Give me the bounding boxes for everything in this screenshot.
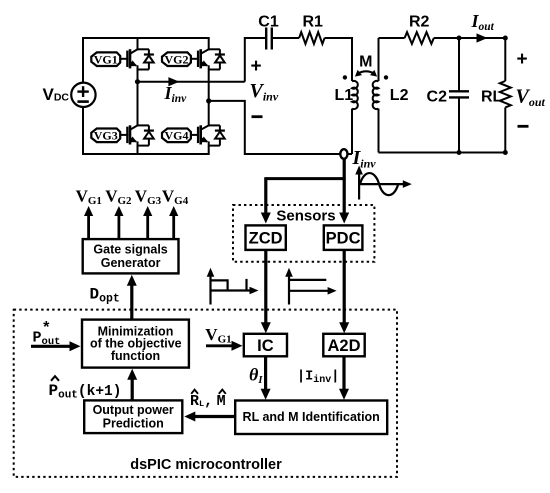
svg-text:VG2: VG2 <box>164 52 188 66</box>
svg-text:+: + <box>517 49 528 70</box>
transistor Q2 (VG2) <box>162 37 225 102</box>
svg-text:PDC: PDC <box>326 229 361 247</box>
arrow: predicted power to Minimization <box>131 375 134 400</box>
svg-text:VG1: VG1 <box>94 52 118 66</box>
arrow: IC output theta to RL and M Identification <box>264 356 267 393</box>
svg-text:RL: RL <box>481 89 503 106</box>
svg-text:RL,M: RL,M <box>190 393 226 410</box>
svg-text:A2D: A2D <box>327 337 360 355</box>
polarity dot L1 <box>343 75 347 79</box>
waveform glyph: phase delay <box>288 273 290 304</box>
arrowhead I_inv direction <box>168 77 179 86</box>
arrow: ZCD output to IC <box>264 250 267 327</box>
hat over R <box>191 390 198 394</box>
block IC <box>244 334 287 357</box>
arrow: gate signal V_G1 <box>87 212 90 239</box>
coupling curved arrow M <box>357 71 375 74</box>
node: right leg midpoint <box>206 98 211 103</box>
wire: bridge bottom rail <box>83 153 209 155</box>
dashed box: dsPIC microcontroller <box>14 310 397 477</box>
arrow: P*out into Minimization <box>31 345 74 348</box>
sine wave <box>360 173 398 195</box>
svg-text:M: M <box>359 53 372 70</box>
svg-text:Gate signals: Gate signals <box>93 242 167 256</box>
svg-text:VG4: VG4 <box>164 129 188 143</box>
waveform glyph: gate pulses <box>209 273 211 304</box>
wire: R1 to L1 top <box>325 38 353 81</box>
wire: bridge top rail <box>83 37 209 39</box>
block ZCD <box>246 225 286 250</box>
svg-text:L2: L2 <box>390 87 409 104</box>
arrow: identified params to Output power Prediction <box>191 415 235 418</box>
block PDC <box>324 225 363 250</box>
transistor Q1 (VG1) <box>91 37 154 83</box>
resistor RL (load) <box>504 38 506 81</box>
block Minimization of the objective function <box>82 320 189 368</box>
wire: bridge left rail upper <box>82 37 84 83</box>
arrow: gate signal V_G2 <box>118 212 121 239</box>
wire: secondary bottom rail <box>379 152 506 154</box>
capacitor C2 <box>458 38 460 91</box>
inductor L1 <box>352 81 358 109</box>
block RL and M Identification <box>235 401 387 435</box>
svg-text:+: + <box>251 56 262 77</box>
transistor Q4 (VG4) <box>162 100 225 155</box>
wire: R2 to RL top corner <box>434 37 506 39</box>
svg-text:dsPIC microcontroller: dsPIC microcontroller <box>130 457 282 473</box>
svg-text:R1: R1 <box>302 14 323 31</box>
resistor R1 <box>299 32 324 44</box>
resistor R2 <box>405 32 434 44</box>
svg-text:*: * <box>42 320 52 338</box>
svg-text:RL and M Identification: RL and M Identification <box>243 410 380 424</box>
svg-text:Generator: Generator <box>101 256 161 270</box>
svg-text:ZCD: ZCD <box>249 229 283 247</box>
arrow: branch down to ZCD <box>264 177 267 217</box>
wire: bridge left rail lower <box>82 107 84 155</box>
wire: C1 to R1 <box>272 37 299 39</box>
hat over M <box>219 390 226 394</box>
node dots secondary <box>457 36 462 41</box>
svg-text:C2: C2 <box>427 89 448 106</box>
arrowhead I_out <box>477 33 488 42</box>
hat over P <box>51 376 59 381</box>
label V_inv minus <box>252 115 263 118</box>
dashed box: Sensors <box>233 205 374 262</box>
wire: inverter + output (crosses right leg) <box>138 81 245 83</box>
wire: primary bottom rail <box>245 153 341 155</box>
block Output power Prediction <box>84 400 182 433</box>
block Gate signals Generator <box>83 239 179 273</box>
wire: L1 bottom lead <box>351 109 353 154</box>
wire: L2 to R2 <box>379 37 405 39</box>
node: left leg midpoint <box>135 79 140 84</box>
arrow: sense tap down to PDC <box>343 159 346 217</box>
wire: up to C1 rail <box>244 37 246 82</box>
svg-text:C1: C1 <box>258 14 279 31</box>
arrow: D_opt to Gate signals Generator <box>130 281 133 319</box>
transistor Q3 (VG3) <box>91 81 154 155</box>
wire: branch to ZCD <box>266 177 346 180</box>
sine symbol horizontal axis <box>359 183 406 185</box>
arrow: A2D output to RL and M Identification <box>342 356 345 393</box>
polarity dot L2 <box>384 75 388 79</box>
svg-text:IC: IC <box>257 337 274 355</box>
svg-text:Output power: Output power <box>93 403 174 417</box>
svg-text:VG3: VG3 <box>94 129 118 143</box>
svg-text:L1: L1 <box>335 87 354 104</box>
svg-text:function: function <box>111 349 160 363</box>
wire: top rail to C1 <box>245 37 266 39</box>
inductor L2 <box>378 38 380 81</box>
arrow: PDC output to A2D <box>343 250 346 327</box>
sine symbol vertical axis <box>358 171 360 200</box>
arrow: gate signal V_G3 <box>146 212 149 239</box>
wire: inverter - output <box>209 101 245 155</box>
svg-text:Sensors: Sensors <box>276 207 335 224</box>
capacitor C1 <box>265 28 267 50</box>
arrow: V_G1 into IC <box>206 344 236 347</box>
voltage source V_DC <box>71 83 95 107</box>
label V_out minus <box>518 125 529 128</box>
arrow: gate signal V_G4 <box>172 212 175 239</box>
block A2D <box>323 334 364 357</box>
svg-text:R2: R2 <box>409 14 430 31</box>
node: I_inv sense point (circle) <box>340 149 347 159</box>
svg-text:Prediction: Prediction <box>103 416 164 430</box>
